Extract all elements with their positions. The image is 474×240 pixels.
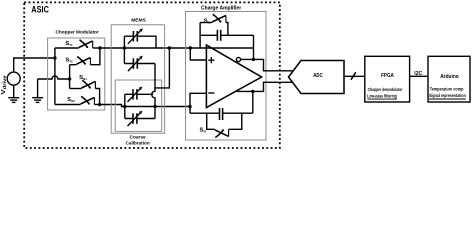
svg-text:I2C: I2C [414,71,422,77]
wire: ground vertical to ST2/SB1 [69,65,71,89]
wire: top feedback left rail [199,23,201,49]
svg-text:Low-pass filtering: Low-pass filtering [367,93,397,98]
node: Vdrive junction [53,56,56,59]
wire: in+ run right end down to out- wire [253,35,255,59]
wire: riser to + input [190,48,206,60]
Charge Amplifier box [186,12,267,141]
node: in+ run / amp+ riser [189,46,192,49]
svg-text:Arduino: Arduino [440,74,459,80]
switch ST1 [55,40,100,48]
wire: ADC to FPGA with bus slash [344,75,365,77]
switch SB2 [55,96,100,104]
node: in- run on rail [188,105,191,108]
variable capacitor C4 [125,111,155,127]
wire: chopper top output to MEMS / amp (in+ run) [100,47,254,49]
MEMS box [111,25,164,133]
op-amp U1 [206,45,261,108]
ground wire to chopper with hop over Vdrive line [38,76,70,79]
wire: C2 right down through coarse section to C4 [152,64,155,119]
svg-text:Chopper demodulator: Chopper demodulator [368,87,403,92]
variable capacitor C2 [124,56,155,72]
FPGA box [365,56,410,102]
wire from Vdrive up and right [14,58,55,72]
switch SB1 [70,75,100,105]
capacitor Cf1 [200,30,253,41]
wire: Vdrive vertical to ST1/SB2 [54,48,56,105]
ground node for chopper [32,79,43,102]
node: chopper bottom output [98,103,101,106]
wire: out+ from bottom slope [237,82,294,91]
svg-text:ADC: ADC [313,73,323,79]
wire: bottom feedback right rail [252,91,254,113]
Chopper Modulator box [48,38,105,110]
switch ST2 [65,48,100,65]
variable capacitor C1 [124,28,156,48]
wire: coarse left vertical (C3/C4) [124,94,126,118]
bubble on out- wire [236,57,240,61]
Arduino box [428,56,470,102]
node: C2-right on lower run [153,105,156,108]
ASIC dashed boundary box [24,2,280,148]
wire: out- from top slope [241,59,294,70]
svg-text:Vdrive: Vdrive [1,74,7,94]
svg-text:Charge Amplifier: Charge Amplifier [201,5,241,11]
voltage source Vdrive [1,72,20,95]
wire: FPGA to Arduino, I2C [410,75,428,77]
svg-text:ASIC: ASIC [31,3,49,14]
svg-text:MEMS: MEMS [131,17,146,23]
node: chopper top output [98,46,101,49]
svg-text:FPGA: FPGA [381,73,394,79]
node: top rail on out- wire [252,58,255,61]
wire: chopper bottom output with jog down to lower run [100,105,125,107]
node: ground junction [68,77,71,80]
svg-text:Coarse: Coarse [130,134,146,140]
node: coarse left junction [123,105,126,108]
wire: link from C2-right line up to in+ run [155,48,169,88]
variable capacitor C3 [125,86,153,102]
node: link junction on in+ run [168,46,171,49]
wire: MEMS left vertical (C1/C2) [123,36,125,63]
node: MEMS top-left junction [123,46,126,49]
ground under Vdrive [8,85,19,102]
svg-text:Signal representation: Signal representation [429,93,466,98]
svg-text:Calibration: Calibration [126,141,150,147]
wire: - input wire and feedback left rail down to bottom run [190,93,206,113]
wire: lower run (in-) [125,106,190,108]
svg-text:Chopper Modulator: Chopper Modulator [56,30,99,36]
capacitor Cf2 in series in bottom feedback run [190,108,253,120]
svg-text:Temperature comp: Temperature comp [430,86,464,91]
switch Sf1 [200,14,228,35]
node: out+ junction with bottom feedback rail [251,90,254,93]
ADC block [289,61,345,94]
Coarse Calibration box [115,80,162,131]
switch Sf2 in parallel below [200,113,242,137]
